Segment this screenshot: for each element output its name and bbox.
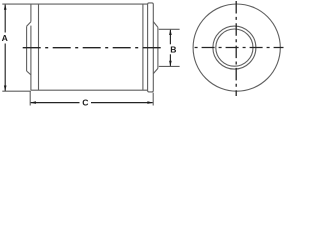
dimension C arrowhead right xyxy=(147,101,153,104)
dimension B arrowhead down xyxy=(169,61,172,67)
right chamfer top diagonal xyxy=(153,22,158,28)
svg-text:A: A xyxy=(2,33,8,43)
svg-text:B: B xyxy=(170,45,176,55)
end view horizontal centerline (dash-dot) xyxy=(195,47,284,49)
A bottom extension line xyxy=(2,90,31,92)
left seam line lower segment xyxy=(30,26,32,91)
end view vertical centerline (dash-dot) xyxy=(235,1,237,96)
end view ring outer circle xyxy=(213,26,256,69)
left chamfer top diagonal xyxy=(27,22,31,27)
B bottom extension line xyxy=(159,65,180,67)
right inner rib line xyxy=(142,4,144,90)
right end cap tab (rounded) xyxy=(148,3,154,92)
svg-text:C: C xyxy=(82,97,88,107)
dimension A arrowhead up xyxy=(4,4,7,10)
dimension A arrowhead down xyxy=(4,86,7,92)
C right extension line xyxy=(152,93,154,106)
side view top edge / A top extension line xyxy=(2,3,147,5)
dimension A line (vertical, with label gap) xyxy=(4,5,6,91)
C left extension line xyxy=(29,92,31,106)
left stub face vertical xyxy=(26,26,28,71)
left chamfer bottom diagonal xyxy=(27,71,31,75)
left inner rib line xyxy=(38,4,40,90)
dimension C line (horizontal, with label gap) xyxy=(31,102,153,104)
dimension B arrowhead up xyxy=(169,29,172,35)
dimension B line (vertical, with label gap) xyxy=(169,30,171,66)
right stub face vertical xyxy=(157,27,159,68)
right chamfer bottom diagonal xyxy=(153,68,158,73)
left seam line upper segment xyxy=(30,4,32,22)
dimension C arrowhead left xyxy=(30,101,36,104)
end view ring inner circle xyxy=(216,29,253,66)
B top extension line xyxy=(159,28,180,30)
end view outer circle xyxy=(193,4,280,91)
side view horizontal centerline (dash-dot) xyxy=(23,47,162,49)
side view bottom edge xyxy=(31,89,148,91)
